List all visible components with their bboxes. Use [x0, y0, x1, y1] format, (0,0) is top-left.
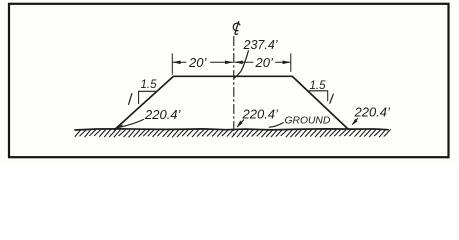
- svg-text:20’: 20’: [255, 55, 274, 70]
- arrowhead left 220.4: [115, 124, 123, 128]
- dimension 20 ft left: dim line: [173, 61, 233, 63]
- dimension 20 ft right: extension line: [290, 54, 292, 72]
- slope gauge left: [139, 91, 156, 103]
- slope one-stroke right: [330, 94, 334, 103]
- slope gauge right: [309, 91, 328, 101]
- border frame: [9, 4, 449, 157]
- slope one-stroke left: [129, 94, 132, 105]
- leader for 237.4 elevation: [234, 51, 248, 79]
- svg-text:1.5: 1.5: [141, 79, 158, 91]
- svg-text:20’: 20’: [188, 55, 207, 70]
- svg-text:220.4’: 220.4’: [242, 107, 280, 122]
- leader middle 220.4: [238, 120, 244, 127]
- leader GROUND: [269, 123, 283, 128]
- svg-text:220.4’: 220.4’: [354, 105, 392, 120]
- leader right 220.4: [353, 119, 358, 125]
- ground hatching: [75, 129, 390, 137]
- embankment outline: [115, 76, 348, 129]
- svg-text:GROUND: GROUND: [285, 116, 331, 127]
- arrowhead right 220.4: [352, 119, 358, 126]
- svg-text:237.4’: 237.4’: [243, 38, 278, 52]
- arrowhead dim left-left: [173, 61, 181, 65]
- svg-text:220.4’: 220.4’: [144, 107, 182, 122]
- centerline: [233, 37, 235, 138]
- leader left 220.4: [118, 119, 144, 127]
- arrowhead dim left-right: [225, 61, 233, 65]
- arrowhead middle 220.4: [237, 121, 243, 128]
- centerline symbol: [233, 22, 240, 35]
- arrowhead dim right-right: [283, 61, 291, 65]
- dimension 20 ft right: dim line: [235, 61, 290, 63]
- svg-text:1.5: 1.5: [310, 80, 327, 92]
- ground line: [75, 129, 388, 130]
- dimension 20 ft left: extension line: [171, 54, 173, 74]
- arrowhead dim right-left: [235, 61, 243, 65]
